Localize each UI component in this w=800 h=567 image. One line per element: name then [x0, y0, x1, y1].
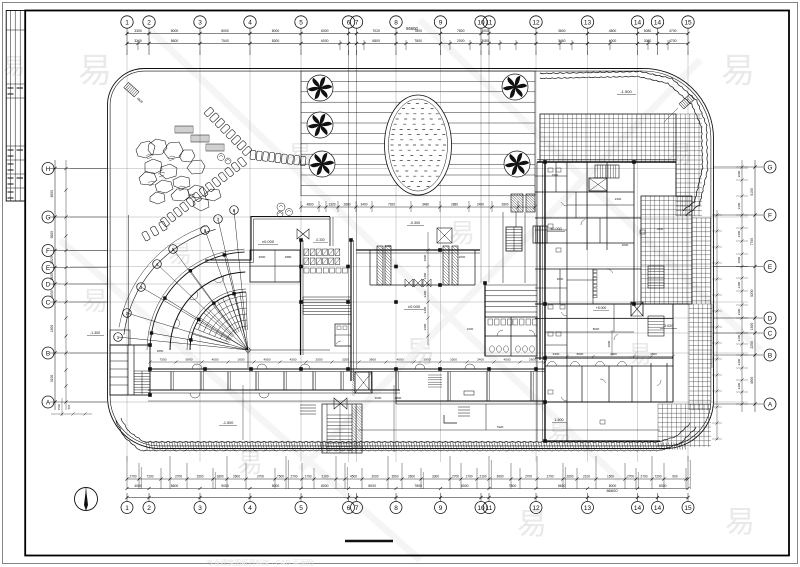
svg-text:E: E: [768, 264, 773, 271]
svg-text:5080: 5080: [50, 231, 54, 239]
svg-text:3200: 3200: [342, 358, 349, 362]
svg-text:4500: 4500: [650, 352, 657, 356]
svg-text:900: 900: [672, 475, 678, 479]
svg-text:-1.500: -1.500: [620, 89, 632, 94]
svg-text:1: 1: [125, 505, 129, 512]
svg-text:2600: 2600: [459, 255, 466, 259]
hall north wall inner: [205, 219, 330, 263]
svg-text:2500: 2500: [316, 358, 323, 362]
hatch C border: [641, 196, 692, 304]
svg-text:1600: 1600: [467, 327, 474, 331]
svg-text:3300: 3300: [450, 358, 457, 362]
svg-text:11: 11: [486, 505, 493, 512]
svg-text:2700: 2700: [129, 475, 136, 479]
svg-text:8300: 8300: [272, 39, 280, 43]
svg-text:7200: 7200: [654, 475, 661, 479]
svg-text:1700: 1700: [465, 475, 472, 479]
inner dim chains: [243, 232, 612, 452]
corridor dimension row: [148, 358, 546, 364]
svg-text:7800: 7800: [414, 484, 422, 488]
svg-text:G: G: [45, 214, 50, 221]
svg-text:4000: 4000: [504, 358, 511, 362]
svg-text:8600: 8600: [558, 484, 566, 488]
svg-text:86600: 86600: [606, 488, 618, 493]
svg-text:3500: 3500: [391, 475, 398, 479]
svg-text:2600: 2600: [233, 475, 240, 479]
svg-text:6000: 6000: [321, 29, 329, 33]
svg-text:4800: 4800: [306, 203, 313, 207]
svg-text:3900: 3900: [496, 475, 503, 479]
svg-text:4: 4: [248, 505, 252, 512]
svg-text:8000: 8000: [221, 29, 229, 33]
title block strip: [6, 11, 25, 202]
svg-text:易: 易: [449, 219, 475, 248]
svg-text:3: 3: [198, 19, 202, 26]
svg-text:易: 易: [721, 53, 755, 90]
svg-text:2850: 2850: [157, 349, 164, 353]
svg-text:13: 13: [584, 505, 592, 512]
svg-text:7: 7: [217, 217, 220, 222]
top grid bubbles 1-15: [121, 16, 694, 28]
bushes: [218, 154, 293, 218]
svg-text:9400: 9400: [553, 352, 560, 356]
svg-text:3000: 3000: [607, 340, 611, 347]
svg-text:G: G: [767, 164, 772, 171]
roof garden hatch D: [689, 304, 712, 368]
svg-text:14: 14: [634, 505, 642, 512]
svg-text:7800: 7800: [457, 29, 465, 33]
svg-text:-1.500: -1.500: [223, 421, 234, 425]
hedge bottom outer: [116, 420, 696, 451]
hall north wall: [205, 217, 330, 261]
svg-text:8000: 8000: [50, 190, 54, 198]
svg-text:8: 8: [394, 505, 398, 512]
fan stair bubbles: [114, 206, 239, 342]
svg-text:易: 易: [628, 342, 652, 368]
svg-text:1700: 1700: [546, 475, 553, 479]
svg-text:7800: 7800: [414, 29, 422, 33]
svg-text:1500: 1500: [196, 475, 203, 479]
svg-text:2000: 2000: [457, 39, 465, 43]
roof garden hatch B: [676, 114, 702, 216]
svg-text:6000: 6000: [321, 39, 329, 43]
planter hatches: [175, 126, 224, 151]
svg-text:4000: 4000: [397, 358, 404, 362]
svg-text:2000: 2000: [737, 170, 741, 177]
svg-text:15: 15: [684, 19, 692, 26]
svg-text:4000: 4000: [264, 358, 271, 362]
hedge top-right inner: [540, 76, 703, 211]
svg-text:+5.000: +5.000: [596, 306, 607, 310]
svg-text:易: 易: [517, 508, 547, 541]
svg-text:1: 1: [125, 19, 129, 26]
building outline (inner): [110, 71, 711, 446]
tree symbol T4: [502, 74, 528, 100]
svg-text:7920: 7920: [497, 425, 504, 429]
svg-text:2700: 2700: [452, 475, 459, 479]
svg-text:2880: 2880: [451, 203, 458, 207]
svg-text:2000: 2000: [657, 227, 664, 231]
svg-text:2: 2: [147, 505, 151, 512]
east wing rooms: [535, 160, 689, 442]
building outline (outer): [107, 68, 713, 448]
svg-text:7: 7: [355, 505, 359, 512]
south door bowtie: [334, 398, 347, 409]
svg-text:7: 7: [355, 19, 359, 26]
hedge bottom inner: [121, 418, 690, 442]
svg-text:14: 14: [654, 19, 662, 26]
roof garden hatch D2: [689, 368, 711, 410]
svg-text:7700: 7700: [750, 238, 754, 246]
svg-text:-0.300: -0.300: [410, 221, 420, 225]
columns: [148, 160, 636, 443]
svg-text:5080: 5080: [644, 29, 652, 33]
svg-text:1800: 1800: [216, 475, 223, 479]
svg-text:3000: 3000: [610, 352, 617, 356]
svg-text:2700: 2700: [290, 475, 297, 479]
entrance block: [356, 228, 480, 287]
tree symbol T5: [504, 151, 530, 177]
svg-text:A: A: [46, 399, 51, 406]
svg-text:7540: 7540: [221, 39, 229, 43]
svg-text:8000: 8000: [368, 484, 376, 488]
svg-text:5100: 5100: [750, 188, 754, 196]
svg-text:4000: 4000: [134, 484, 142, 488]
svg-text:2600: 2600: [408, 475, 415, 479]
east column X pair: [631, 302, 643, 316]
svg-text:2600: 2600: [622, 243, 629, 247]
south wing: [148, 364, 660, 430]
svg-text:2100: 2100: [737, 334, 741, 341]
svg-text:3: 3: [198, 505, 202, 512]
svg-text:C: C: [768, 330, 773, 337]
svg-text:3000: 3000: [259, 255, 266, 259]
roof garden hatch C2: [692, 218, 711, 304]
svg-text:3400: 3400: [360, 203, 367, 207]
svg-text:B: B: [46, 350, 50, 357]
svg-text:14: 14: [634, 19, 642, 26]
svg-text:1320: 1320: [328, 203, 335, 207]
svg-text:2400: 2400: [737, 358, 741, 365]
svg-text:5100: 5100: [50, 375, 54, 383]
svg-text:2500: 2500: [737, 256, 741, 263]
bottom dimension lines: [125, 456, 690, 501]
hedge top-right outer: [540, 71, 708, 216]
svg-text:2600: 2600: [566, 475, 573, 479]
svg-text:7200: 7200: [146, 475, 153, 479]
svg-text:14: 14: [654, 505, 662, 512]
svg-text:8000: 8000: [272, 29, 280, 33]
stepping stone paths: [141, 107, 306, 241]
svg-text:1500: 1500: [607, 475, 614, 479]
svg-text:6: 6: [347, 505, 351, 512]
svg-text:1500: 1500: [750, 323, 754, 331]
svg-text:2800: 2800: [501, 203, 508, 207]
svg-text:5800: 5800: [186, 358, 193, 362]
svg-text:8000: 8000: [461, 484, 469, 488]
entrance walkway (south): [322, 404, 362, 453]
svg-text:8600: 8600: [171, 39, 179, 43]
svg-text:2600: 2600: [737, 230, 741, 237]
svg-text:12: 12: [532, 505, 540, 512]
roof garden hatch E (corner): [658, 404, 711, 447]
svg-text:D: D: [768, 315, 773, 322]
svg-text:3000: 3000: [423, 254, 427, 261]
bottom grid bubbles 1-15: [121, 502, 694, 514]
svg-text:5: 5: [299, 505, 303, 512]
svg-text:2400: 2400: [477, 203, 484, 207]
svg-text:8: 8: [394, 19, 398, 26]
svg-text:8: 8: [233, 208, 236, 213]
svg-text:3: 3: [140, 285, 143, 290]
east elevator: [589, 178, 607, 191]
svg-text:1880: 1880: [285, 255, 292, 259]
paving stripes: [301, 71, 535, 196]
svg-text:1800: 1800: [50, 325, 54, 333]
hatch A border: [540, 114, 676, 162]
svg-text:4000: 4000: [212, 358, 219, 362]
roof garden hatch C: [641, 196, 692, 304]
south elevator: [352, 370, 372, 396]
svg-text:2: 2: [147, 19, 151, 26]
entrance dimension row: [299, 201, 536, 212]
svg-text:13: 13: [584, 19, 592, 26]
roof garden hatch A: [540, 114, 676, 162]
svg-text:1700: 1700: [304, 475, 311, 479]
corner slope mark: [124, 82, 139, 97]
svg-text:1560: 1560: [57, 403, 61, 410]
svg-text:易: 易: [668, 142, 692, 168]
svg-text:8000: 8000: [659, 484, 667, 488]
svg-text:3080: 3080: [644, 39, 652, 43]
svg-text:4800: 4800: [609, 29, 617, 33]
svg-text:4: 4: [248, 19, 252, 26]
svg-text:2000: 2000: [371, 475, 378, 479]
toilets: [485, 317, 537, 356]
svg-text:15: 15: [684, 505, 692, 512]
svg-text:9000: 9000: [221, 484, 229, 488]
svg-text:8000: 8000: [171, 29, 179, 33]
west door bowtie: [297, 229, 309, 239]
svg-text:易: 易: [725, 506, 755, 539]
corner slope mark NE: [679, 94, 694, 109]
svg-text:7800: 7800: [414, 39, 422, 43]
svg-text:4700: 4700: [669, 39, 677, 43]
svg-text:1600: 1600: [238, 358, 245, 362]
svg-text:-0.330: -0.330: [315, 238, 324, 242]
svg-text:11: 11: [486, 19, 493, 26]
svg-text:4500: 4500: [290, 358, 297, 362]
structural grid lines: [70, 50, 748, 462]
tree symbol T1: [307, 75, 333, 101]
svg-text:5: 5: [299, 19, 303, 26]
svg-text:2700: 2700: [640, 475, 647, 479]
svg-text:2400: 2400: [423, 272, 427, 279]
svg-text:7500: 7500: [277, 475, 284, 479]
svg-text:2700: 2700: [627, 475, 634, 479]
svg-text:3300: 3300: [737, 202, 741, 209]
entrance steps: [300, 396, 470, 416]
svg-text:3300: 3300: [432, 475, 439, 479]
svg-text:2100: 2100: [321, 475, 328, 479]
room dim labels: [157, 173, 664, 353]
svg-text:1.500: 1.500: [555, 418, 564, 422]
svg-text:7920: 7920: [388, 203, 395, 207]
svg-text:H: H: [46, 166, 51, 173]
svg-text:±0.000: ±0.000: [550, 227, 562, 231]
right dimension lines: [712, 160, 763, 441]
svg-text:8000: 8000: [593, 327, 600, 331]
svg-text:4500: 4500: [350, 475, 357, 479]
svg-text:3300: 3300: [134, 29, 142, 33]
terrace corner mark: [444, 415, 457, 423]
svg-text:2100: 2100: [583, 475, 590, 479]
svg-text:±0.000: ±0.000: [408, 304, 421, 309]
title bar line: [345, 540, 393, 542]
svg-text:2400: 2400: [615, 197, 622, 201]
svg-text:8000: 8000: [577, 352, 584, 356]
svg-text:F: F: [768, 212, 772, 219]
tree symbol T2: [307, 112, 333, 138]
east stairs: [595, 165, 664, 336]
svg-text:2400: 2400: [423, 306, 427, 313]
rock garden: [136, 139, 221, 211]
svg-text:2400: 2400: [477, 358, 484, 362]
svg-text:1500: 1500: [552, 173, 559, 177]
svg-text:2600: 2600: [737, 308, 741, 315]
svg-text:2400: 2400: [423, 290, 427, 297]
svg-text:专业建筑图纸资料库 · CAD 平面图: 专业建筑图纸资料库 · CAD 平面图: [207, 558, 314, 567]
svg-text:E: E: [46, 265, 51, 272]
svg-text:易: 易: [82, 287, 108, 316]
svg-text:2400: 2400: [385, 244, 392, 248]
svg-text:500: 500: [67, 404, 71, 409]
fan staircase: [118, 210, 330, 368]
svg-text:-1.300: -1.300: [90, 331, 100, 335]
svg-text:3600: 3600: [558, 29, 566, 33]
svg-text:9: 9: [439, 19, 443, 26]
svg-text:6800: 6800: [372, 39, 380, 43]
svg-text:2800: 2800: [424, 358, 431, 362]
svg-text:4700: 4700: [669, 29, 677, 33]
svg-text:易: 易: [78, 53, 112, 90]
west service block: [110, 215, 150, 395]
svg-text:3000: 3000: [375, 396, 382, 400]
top dimension lines: [125, 26, 689, 55]
svg-text:5200: 5200: [750, 289, 754, 297]
svg-text:2700: 2700: [525, 475, 532, 479]
left grid bubbles A-H: [42, 163, 54, 409]
svg-text:3480: 3480: [422, 203, 429, 207]
svg-text:F: F: [46, 248, 50, 255]
svg-text:1800: 1800: [395, 396, 402, 400]
tree symbol T3: [309, 151, 335, 177]
central hall block: [250, 217, 354, 381]
svg-text:12: 12: [532, 19, 540, 26]
right grid bubbles A-G: [764, 161, 776, 410]
svg-text:7020: 7020: [372, 29, 380, 33]
svg-text:2200: 2200: [750, 341, 754, 349]
svg-text:D: D: [46, 281, 51, 288]
svg-text:7500: 7500: [160, 358, 167, 362]
svg-text:8600: 8600: [171, 484, 179, 488]
svg-text:2700: 2700: [257, 475, 264, 479]
svg-text:4800: 4800: [136, 96, 144, 104]
svg-text:2700: 2700: [175, 475, 182, 479]
svg-text:9: 9: [439, 505, 443, 512]
hedge texture: [146, 443, 685, 450]
oval pond: [385, 95, 452, 195]
svg-text:±0.000: ±0.000: [262, 239, 275, 244]
svg-text:8000: 8000: [272, 484, 280, 488]
left dimension lines: [50, 160, 107, 416]
svg-text:3600: 3600: [369, 358, 376, 362]
svg-text:2880: 2880: [343, 203, 350, 207]
north arrow: [75, 488, 98, 512]
central stair cores: [503, 194, 547, 283]
svg-text:3460: 3460: [558, 39, 566, 43]
svg-text:7800: 7800: [509, 484, 517, 488]
svg-text:8000: 8000: [321, 484, 329, 488]
stair landing stripes: [485, 226, 540, 360]
svg-text:2100: 2100: [479, 475, 486, 479]
svg-text:4900: 4900: [750, 377, 754, 385]
svg-text:2400: 2400: [737, 281, 741, 288]
svg-text:2600: 2600: [423, 323, 427, 330]
svg-text:A: A: [768, 401, 773, 408]
svg-text:B: B: [768, 352, 772, 359]
svg-text:2300: 2300: [737, 382, 741, 389]
svg-text:C: C: [46, 299, 51, 306]
